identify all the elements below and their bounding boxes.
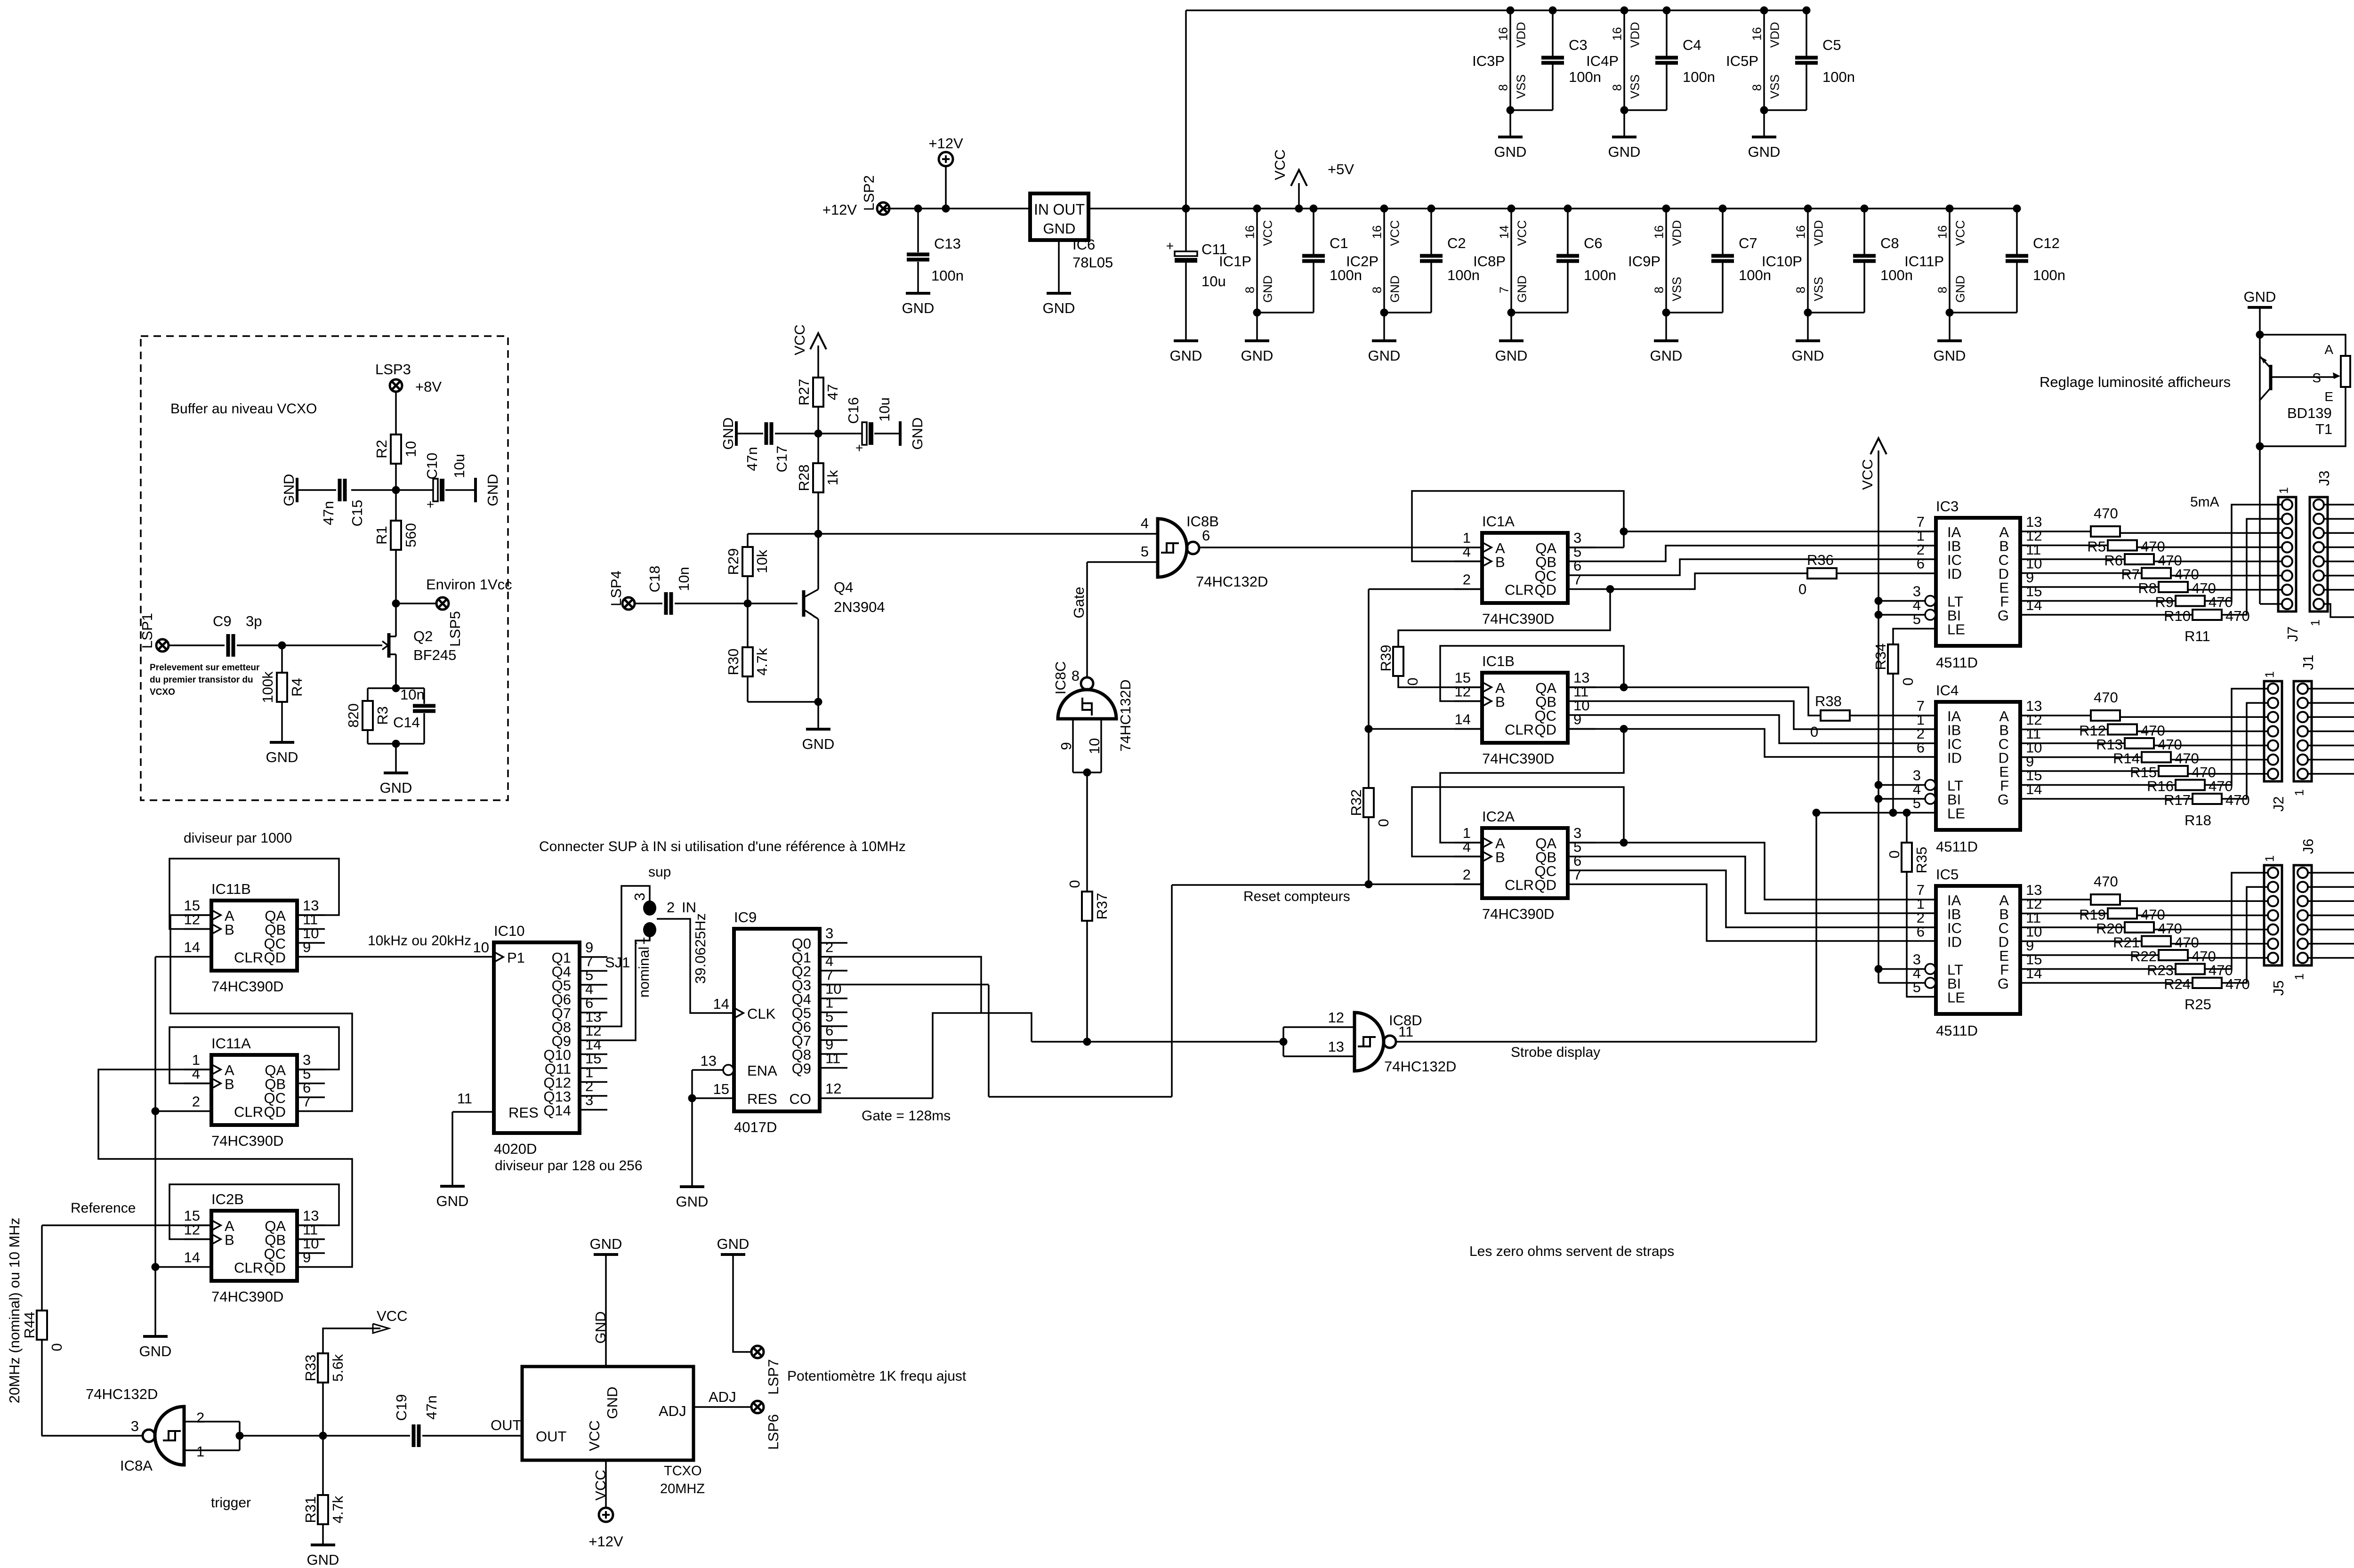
svg-text:LSP3: LSP3 (375, 361, 411, 378)
svg-text:R7: R7 (2121, 566, 2140, 583)
svg-text:T1: T1 (2315, 421, 2332, 437)
svg-text:Connecter SUP à IN si utilisat: Connecter SUP à IN si utilisation d'une … (539, 839, 906, 854)
svg-text:B: B (1495, 554, 1505, 571)
svg-text:ADJ: ADJ (709, 1389, 736, 1405)
svg-text:GND: GND (1748, 144, 1781, 160)
svg-text:R24: R24 (2164, 976, 2191, 992)
svg-text:IC4P: IC4P (1586, 53, 1619, 69)
svg-text:C13: C13 (934, 235, 961, 252)
svg-text:5: 5 (1141, 543, 1149, 560)
svg-text:4511D: 4511D (1936, 654, 1978, 671)
svg-text:R44: R44 (21, 1312, 38, 1339)
svg-text:47n: 47n (423, 1395, 440, 1420)
svg-text:R18: R18 (2185, 812, 2211, 828)
svg-text:0: 0 (1798, 581, 1806, 597)
svg-text:9: 9 (1058, 742, 1074, 750)
svg-text:2: 2 (192, 1094, 200, 1110)
svg-text:+: + (427, 497, 434, 512)
svg-text:10u: 10u (1201, 273, 1226, 289)
svg-text:4.7k: 4.7k (754, 648, 770, 675)
svg-text:3: 3 (631, 893, 648, 901)
svg-text:OUT: OUT (1053, 201, 1085, 218)
svg-text:11: 11 (1398, 1023, 1413, 1040)
svg-text:IN: IN (1034, 201, 1049, 218)
svg-text:GND: GND (1650, 347, 1683, 364)
svg-text:4: 4 (1463, 839, 1471, 855)
svg-text:100k: 100k (259, 671, 276, 703)
svg-text:12: 12 (1455, 683, 1471, 700)
svg-text:16: 16 (1652, 225, 1666, 239)
svg-text:20MHz (nominal) ou 10 MHz: 20MHz (nominal) ou 10 MHz (6, 1218, 23, 1404)
svg-text:8: 8 (1793, 287, 1807, 293)
svg-text:15: 15 (713, 1081, 729, 1097)
svg-text:1: 1 (631, 937, 648, 945)
svg-text:1k: 1k (824, 470, 841, 485)
svg-text:CO: CO (790, 1091, 812, 1107)
svg-text:nominal: nominal (636, 947, 652, 998)
svg-text:16: 16 (1242, 225, 1257, 239)
svg-text:IC8P: IC8P (1473, 253, 1506, 270)
svg-text:Q4: Q4 (834, 579, 853, 595)
svg-text:Reference: Reference (71, 1200, 136, 1216)
svg-text:LSP6: LSP6 (765, 1414, 782, 1450)
svg-text:B: B (225, 1232, 234, 1248)
svg-text:GND: GND (1043, 300, 1075, 316)
svg-text:16: 16 (1496, 27, 1510, 41)
svg-text:20MHZ: 20MHZ (660, 1481, 705, 1496)
svg-text:Gate = 128ms: Gate = 128ms (862, 1108, 951, 1124)
svg-text:7: 7 (1573, 867, 1581, 883)
svg-text:IC10P: IC10P (1762, 253, 1802, 270)
svg-text:GND: GND (1953, 275, 1967, 303)
svg-text:9: 9 (1573, 711, 1581, 728)
svg-text:VCC: VCC (1260, 220, 1274, 246)
svg-text:74HC390D: 74HC390D (211, 978, 283, 995)
svg-text:VSS: VSS (1514, 74, 1528, 99)
svg-text:3: 3 (585, 1092, 593, 1109)
svg-text:1: 1 (2262, 855, 2276, 862)
svg-text:1: 1 (2276, 487, 2290, 494)
svg-text:C14: C14 (393, 714, 420, 731)
svg-text:R30: R30 (725, 649, 742, 675)
svg-text:C3: C3 (1569, 37, 1588, 53)
svg-text:J5: J5 (2270, 981, 2287, 996)
svg-text:BD139: BD139 (2287, 405, 2332, 421)
svg-text:C4: C4 (1683, 37, 1701, 53)
svg-text:560: 560 (403, 523, 419, 547)
svg-text:C10: C10 (424, 453, 440, 480)
svg-text:0: 0 (1886, 850, 1903, 858)
svg-text:IC10: IC10 (494, 923, 524, 939)
svg-text:8: 8 (1652, 287, 1666, 293)
svg-text:GND: GND (1043, 220, 1076, 237)
svg-text:16: 16 (1793, 225, 1807, 239)
svg-text:GND: GND (1515, 275, 1529, 303)
svg-text:R32: R32 (1348, 789, 1364, 816)
svg-text:Prelevement sur emetteur: Prelevement sur emetteur (150, 663, 260, 673)
svg-text:6: 6 (1917, 555, 1925, 572)
svg-text:GND: GND (1494, 144, 1527, 160)
svg-text:R17: R17 (2164, 792, 2191, 808)
svg-text:C16: C16 (845, 397, 862, 424)
svg-text:VSS: VSS (1669, 277, 1684, 301)
svg-text:9: 9 (303, 1249, 311, 1266)
svg-text:5: 5 (1913, 611, 1921, 627)
svg-text:VDD: VDD (1669, 220, 1684, 246)
svg-text:74HC132D: 74HC132D (1384, 1058, 1456, 1075)
svg-text:VCC: VCC (592, 1470, 609, 1500)
svg-text:GND: GND (484, 474, 501, 507)
svg-text:R39: R39 (1378, 645, 1394, 672)
svg-text:R10: R10 (2164, 608, 2191, 624)
svg-text:1: 1 (2292, 789, 2306, 796)
svg-text:R31: R31 (302, 1496, 319, 1523)
svg-text:16: 16 (1610, 27, 1624, 41)
svg-text:E: E (2324, 389, 2333, 404)
svg-text:13: 13 (1328, 1038, 1344, 1055)
svg-text:11: 11 (825, 1050, 840, 1067)
svg-text:RES: RES (747, 1091, 777, 1107)
svg-text:GND: GND (2244, 289, 2276, 305)
svg-text:LSP1: LSP1 (139, 613, 155, 649)
svg-text:C17: C17 (774, 446, 790, 473)
svg-text:CLR: CLR (234, 1104, 263, 1120)
svg-text:78L05: 78L05 (1072, 254, 1113, 271)
svg-text:VSS: VSS (1811, 277, 1825, 301)
svg-text:IC1B: IC1B (1482, 653, 1515, 669)
svg-text:GND: GND (720, 418, 736, 450)
svg-text:J7: J7 (2284, 627, 2301, 642)
svg-text:R3: R3 (374, 706, 391, 725)
svg-text:4017D: 4017D (734, 1119, 777, 1135)
svg-text:GND: GND (592, 1311, 609, 1344)
svg-text:R2: R2 (373, 440, 390, 458)
svg-text:P1: P1 (507, 949, 525, 966)
svg-text:Gate: Gate (1071, 587, 1087, 618)
svg-text:C2: C2 (1447, 235, 1466, 251)
svg-text:diviseur par 128 ou 256: diviseur par 128 ou 256 (495, 1158, 643, 1174)
svg-text:GND: GND (802, 736, 835, 752)
svg-text:B: B (1495, 849, 1505, 866)
svg-text:OUT: OUT (536, 1428, 567, 1445)
svg-text:8: 8 (1072, 667, 1080, 684)
svg-text:TCXO: TCXO (664, 1463, 702, 1479)
svg-text:B: B (1495, 694, 1505, 710)
svg-text:4511D: 4511D (1936, 1022, 1978, 1039)
svg-text:+12V: +12V (822, 201, 857, 218)
svg-text:8: 8 (1610, 84, 1624, 91)
svg-text:IC11P: IC11P (1904, 253, 1944, 270)
svg-text:4: 4 (1463, 544, 1471, 560)
svg-text:ENA: ENA (747, 1062, 777, 1079)
svg-text:B: B (225, 922, 234, 938)
svg-text:VSS: VSS (1767, 74, 1782, 99)
svg-text:74HC390D: 74HC390D (1482, 611, 1554, 627)
svg-text:ID: ID (1947, 566, 1962, 582)
svg-text:IC3P: IC3P (1472, 53, 1505, 69)
svg-text:R25: R25 (2185, 996, 2211, 1013)
svg-text:8: 8 (1496, 84, 1510, 91)
svg-text:VCC: VCC (1859, 459, 1876, 490)
svg-text:Reset compteurs: Reset compteurs (1243, 889, 1350, 904)
svg-text:R33: R33 (302, 1355, 319, 1382)
svg-text:3: 3 (131, 1418, 139, 1434)
svg-text:IC6: IC6 (1072, 236, 1095, 253)
svg-text:4020D: 4020D (494, 1141, 537, 1157)
svg-text:QD: QD (264, 1104, 286, 1120)
svg-text:100n: 100n (931, 267, 964, 284)
svg-text:LE: LE (1947, 621, 1965, 638)
svg-text:R29: R29 (725, 548, 742, 575)
svg-text:6: 6 (1917, 924, 1925, 940)
svg-text:2: 2 (667, 899, 675, 916)
svg-text:VSS: VSS (1628, 74, 1642, 99)
svg-text:GND: GND (1241, 347, 1274, 364)
svg-text:C7: C7 (1739, 235, 1757, 251)
svg-text:ADJ: ADJ (659, 1403, 686, 1419)
svg-text:IC1A: IC1A (1482, 513, 1515, 530)
svg-text:A: A (2324, 342, 2333, 357)
svg-text:GND: GND (139, 1343, 172, 1359)
svg-text:Q2: Q2 (413, 628, 433, 644)
svg-text:C15: C15 (349, 500, 365, 527)
svg-text:GND: GND (902, 300, 935, 316)
svg-text:Potentiomètre 1K frequ ajust: Potentiomètre 1K frequ ajust (787, 1368, 967, 1384)
svg-text:B: B (225, 1076, 234, 1093)
svg-text:9: 9 (303, 939, 311, 956)
svg-text:Reglage luminosité afficheurs: Reglage luminosité afficheurs (2040, 374, 2231, 390)
svg-text:R6: R6 (2104, 552, 2123, 569)
svg-text:GND: GND (1934, 347, 1966, 364)
svg-text:R35: R35 (1913, 847, 1930, 874)
svg-text:IC2P: IC2P (1346, 253, 1379, 270)
svg-text:SJ1: SJ1 (605, 954, 630, 971)
svg-text:2: 2 (1463, 571, 1471, 588)
svg-text:8: 8 (1242, 287, 1257, 293)
svg-text:8: 8 (1370, 287, 1384, 293)
svg-text:2N3904: 2N3904 (834, 599, 885, 615)
svg-text:4: 4 (1141, 515, 1149, 531)
svg-text:10: 10 (473, 939, 489, 956)
svg-text:GND: GND (1387, 275, 1402, 303)
svg-text:100n: 100n (1822, 69, 1855, 85)
svg-text:12: 12 (825, 1080, 841, 1097)
svg-text:14: 14 (2026, 597, 2042, 613)
svg-text:VCC: VCC (586, 1420, 603, 1451)
svg-text:74HC132D: 74HC132D (1196, 573, 1268, 590)
svg-text:VCC: VCC (1953, 220, 1967, 246)
svg-text:IC9P: IC9P (1628, 253, 1661, 270)
svg-text:10u: 10u (451, 454, 468, 478)
svg-text:CLR: CLR (1505, 722, 1534, 738)
svg-text:J6: J6 (2300, 839, 2316, 854)
svg-text:4511D: 4511D (1936, 838, 1978, 855)
svg-text:74HC390D: 74HC390D (1482, 906, 1554, 922)
svg-text:7: 7 (303, 1094, 311, 1110)
svg-text:LE: LE (1947, 805, 1965, 822)
svg-text:10n: 10n (676, 567, 692, 591)
svg-text:100n: 100n (2033, 267, 2065, 283)
svg-text:R38: R38 (1815, 693, 1842, 709)
svg-text:J2: J2 (2270, 796, 2287, 812)
svg-text:0: 0 (1900, 677, 1916, 685)
svg-text:G: G (1998, 975, 2009, 992)
svg-text:C6: C6 (1584, 235, 1603, 251)
svg-text:G: G (1998, 791, 2009, 808)
svg-text:LE: LE (1947, 989, 1965, 1006)
svg-text:R36: R36 (1807, 552, 1834, 568)
svg-text:Q14: Q14 (543, 1102, 571, 1119)
svg-text:100n: 100n (1569, 69, 1601, 85)
svg-text:4: 4 (192, 1066, 200, 1082)
svg-text:Les zero ohms servent de strap: Les zero ohms servent de straps (1469, 1244, 1674, 1259)
svg-text:Q9: Q9 (792, 1061, 811, 1077)
svg-text:10kHz ou 20kHz: 10kHz ou 20kHz (368, 933, 471, 949)
svg-text:R11: R11 (2185, 628, 2210, 644)
svg-text:0: 0 (1810, 724, 1818, 740)
svg-text:+5V: +5V (1328, 161, 1354, 177)
svg-text:74HC390D: 74HC390D (211, 1288, 283, 1305)
svg-text:+: + (1166, 239, 1174, 253)
svg-text:IC9: IC9 (734, 909, 757, 925)
svg-text:1: 1 (2262, 671, 2276, 678)
svg-text:GND: GND (1495, 347, 1528, 364)
svg-text:C8: C8 (1880, 235, 1899, 251)
svg-text:VDD: VDD (1628, 22, 1642, 48)
svg-text:8: 8 (1749, 84, 1764, 91)
svg-text:GND: GND (281, 474, 297, 507)
svg-text:74HC390D: 74HC390D (211, 1133, 283, 1149)
svg-text:13: 13 (701, 1053, 717, 1069)
svg-text:14: 14 (1455, 711, 1471, 728)
svg-text:VDD: VDD (1514, 22, 1528, 48)
svg-text:1: 1 (196, 1443, 204, 1460)
svg-text:diviseur par 1000: diviseur par 1000 (184, 830, 292, 846)
svg-text:+12V: +12V (928, 135, 963, 152)
svg-text:74HC132D: 74HC132D (86, 1386, 158, 1402)
svg-text:IC11A: IC11A (211, 1035, 251, 1052)
svg-text:QD: QD (1535, 582, 1557, 598)
svg-text:C5: C5 (1822, 37, 1841, 53)
svg-text:0: 0 (1375, 819, 1392, 827)
svg-text:J1: J1 (2300, 655, 2316, 670)
svg-text:5: 5 (1913, 795, 1921, 812)
svg-text:C1: C1 (1330, 235, 1348, 251)
svg-text:2: 2 (196, 1409, 204, 1426)
svg-text:5: 5 (1913, 979, 1921, 996)
svg-text:OUT: OUT (491, 1417, 522, 1433)
svg-text:QD: QD (264, 949, 286, 966)
svg-text:47: 47 (824, 384, 841, 400)
svg-text:IC5: IC5 (1936, 866, 1959, 883)
svg-text:4.7k: 4.7k (330, 1496, 346, 1523)
svg-text:IC2B: IC2B (211, 1191, 244, 1207)
svg-text:G: G (1998, 607, 2009, 624)
svg-text:GND: GND (604, 1387, 621, 1419)
svg-text:QD: QD (1535, 877, 1557, 893)
svg-text:2: 2 (1463, 867, 1471, 883)
svg-text:470: 470 (2094, 505, 2118, 522)
svg-text:VCXO: VCXO (150, 687, 175, 697)
svg-text:47n: 47n (744, 447, 760, 471)
svg-text:470: 470 (2094, 873, 2118, 890)
svg-text:10: 10 (1086, 738, 1103, 754)
svg-text:470: 470 (2094, 689, 2118, 706)
svg-text:IC8A: IC8A (120, 1457, 153, 1474)
svg-text:74HC390D: 74HC390D (1482, 750, 1554, 767)
svg-text:R34: R34 (1872, 643, 1889, 670)
svg-text:16: 16 (1370, 225, 1384, 239)
svg-text:LSP2: LSP2 (861, 175, 877, 211)
svg-text:14: 14 (2026, 781, 2042, 797)
svg-text:14: 14 (713, 996, 729, 1012)
svg-text:GND: GND (307, 1552, 339, 1568)
svg-text:6: 6 (1202, 527, 1210, 544)
svg-text:VCC: VCC (1515, 220, 1529, 246)
svg-text:S: S (2312, 370, 2321, 385)
svg-text:12: 12 (184, 911, 200, 928)
svg-text:R37: R37 (1094, 893, 1110, 920)
svg-text:R5: R5 (2087, 539, 2106, 555)
svg-text:14: 14 (184, 939, 200, 956)
svg-text:39.0625Hz: 39.0625Hz (692, 913, 709, 984)
svg-text:16: 16 (1935, 225, 1949, 239)
svg-text:IC11B: IC11B (211, 881, 251, 897)
svg-text:5mA: 5mA (2190, 494, 2219, 510)
svg-text:ID: ID (1947, 934, 1962, 950)
svg-text:LSP7: LSP7 (765, 1359, 782, 1395)
svg-text:74HC132D: 74HC132D (1117, 679, 1134, 751)
svg-text:VDD: VDD (1811, 220, 1825, 246)
svg-text:6: 6 (1917, 740, 1925, 756)
svg-text:VCC: VCC (377, 1308, 407, 1324)
svg-text:GND: GND (380, 780, 412, 796)
svg-text:GND: GND (909, 418, 926, 450)
svg-text:GND: GND (1170, 347, 1202, 364)
svg-text:GND: GND (1608, 144, 1641, 160)
svg-text:0: 0 (1404, 677, 1421, 685)
svg-text:0: 0 (48, 1343, 65, 1351)
svg-text:16: 16 (1749, 27, 1764, 41)
svg-text:CLR: CLR (234, 1260, 263, 1276)
svg-text:100n: 100n (1584, 267, 1616, 283)
svg-text:LSP4: LSP4 (608, 571, 624, 606)
svg-text:R1: R1 (373, 526, 390, 545)
svg-text:GND: GND (676, 1193, 709, 1210)
svg-text:C18: C18 (646, 566, 663, 593)
svg-text:Environ 1Vcc: Environ 1Vcc (426, 576, 512, 593)
svg-text:IN: IN (682, 899, 696, 916)
svg-text:IC2A: IC2A (1482, 808, 1515, 825)
svg-text:R8: R8 (2138, 580, 2157, 596)
svg-text:GND: GND (717, 1236, 750, 1252)
svg-text:ID: ID (1947, 750, 1962, 766)
svg-text:14: 14 (184, 1249, 200, 1266)
svg-text:VDD: VDD (1767, 22, 1782, 48)
svg-text:12: 12 (1328, 1009, 1344, 1026)
svg-text:C12: C12 (2033, 235, 2060, 251)
svg-text:BF245: BF245 (413, 647, 456, 663)
svg-text:GND: GND (266, 749, 298, 765)
svg-text:1: 1 (2308, 619, 2322, 626)
svg-text:CLR: CLR (1505, 582, 1534, 598)
svg-text:CLR: CLR (234, 949, 263, 966)
svg-text:VCC: VCC (1272, 149, 1288, 180)
svg-text:+: + (855, 441, 863, 455)
svg-text:GND: GND (1260, 275, 1274, 303)
svg-text:IC3: IC3 (1936, 498, 1959, 515)
svg-text:QD: QD (264, 1260, 286, 1276)
